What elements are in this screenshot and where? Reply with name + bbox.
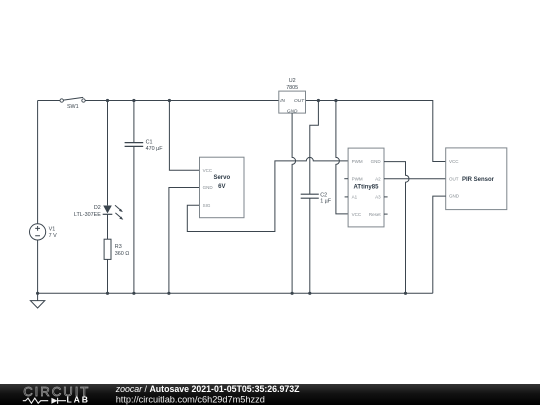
wire top rail middle segment bbox=[85, 100, 279, 102]
junction dot bottom rail at C2 branch bbox=[308, 292, 311, 295]
svg-text:PIR Sensor: PIR Sensor bbox=[462, 177, 495, 183]
wire top rail right segment to PIR VCC bbox=[306, 101, 446, 162]
stub pin Reset right bbox=[384, 213, 388, 215]
svg-text:6V: 6V bbox=[218, 184, 225, 190]
PIR sensor module bbox=[446, 148, 507, 210]
junction dot top rail at D2 branch bbox=[106, 99, 109, 102]
svg-text:D2: D2 bbox=[94, 205, 101, 211]
svg-text:zoocar / Autosave 2021-01-05T0: zoocar / Autosave 2021-01-05T05:35:26.97… bbox=[115, 384, 300, 394]
svg-text:7805: 7805 bbox=[286, 85, 298, 91]
svg-text:SIG: SIG bbox=[203, 203, 211, 208]
svg-text:C1: C1 bbox=[146, 140, 153, 146]
junction dot top rail at ATtiny VCC branch bbox=[334, 99, 337, 102]
wire ATtiny GND to bottom rail (hops right over A2 wire) bbox=[384, 162, 409, 294]
junction dot top rail at servo VCC branch bbox=[168, 99, 171, 102]
resistor R3 bbox=[104, 239, 129, 259]
svg-text:OUT: OUT bbox=[449, 177, 459, 182]
svg-text:SW1: SW1 bbox=[67, 104, 79, 110]
wire servo GND to bottom rail bbox=[169, 188, 200, 294]
svg-text:470 µF: 470 µF bbox=[146, 146, 164, 152]
wire PIR GND to bottom rail bbox=[433, 196, 446, 293]
wire D2 branch upper bbox=[107, 101, 109, 206]
svg-text:A1: A1 bbox=[352, 195, 358, 200]
junction dot top rail at C2 branch bbox=[317, 99, 320, 102]
svg-text:GND: GND bbox=[449, 194, 460, 199]
wire servo VCC branch bbox=[169, 101, 199, 171]
svg-text:GND: GND bbox=[203, 185, 214, 190]
junction dot bottom rail at C1 branch bbox=[132, 292, 135, 295]
voltage source V1 bbox=[29, 224, 57, 240]
wire C2 branch from OUT rail bbox=[310, 101, 319, 195]
wire left branch lower (V1 to bottom rail) bbox=[37, 240, 39, 293]
svg-text:VCC: VCC bbox=[352, 212, 362, 217]
svg-text:C2: C2 bbox=[320, 192, 327, 198]
servo module M1 bbox=[200, 157, 245, 218]
wire servo SIG to ATtiny PWM (with hop over C2 line) bbox=[187, 157, 348, 231]
svg-text:PWM: PWM bbox=[352, 159, 363, 164]
svg-text:IN: IN bbox=[280, 98, 285, 104]
svg-text:LTL-307EE: LTL-307EE bbox=[74, 212, 101, 218]
regulator U2 7805 bbox=[279, 78, 306, 114]
svg-text:http://circuitlab.com/c6h29d7m: http://circuitlab.com/c6h29d7m5hzzd bbox=[116, 394, 265, 404]
capacitor C2 bbox=[301, 192, 332, 204]
wire C1 to bottom rail bbox=[133, 147, 135, 294]
svg-text:1 µF: 1 µF bbox=[320, 199, 332, 205]
LED D2 bbox=[74, 205, 123, 220]
svg-text:GND: GND bbox=[371, 159, 382, 164]
capacitor C1 bbox=[125, 140, 164, 152]
CircuitLab logo bbox=[23, 384, 91, 405]
wire U2 GND to bottom rail (hops right over SIG wire) bbox=[292, 113, 296, 293]
junction dot bottom rail at ATtiny GND branch bbox=[404, 292, 407, 295]
IC U1 ATtiny85 bbox=[348, 148, 384, 227]
svg-text:360 Ω: 360 Ω bbox=[115, 251, 130, 257]
wire C2 to bottom rail bbox=[309, 198, 311, 293]
svg-text:V1: V1 bbox=[49, 227, 56, 233]
ground bbox=[30, 293, 44, 308]
stub pin A1 left bbox=[345, 196, 349, 198]
svg-text:VCC: VCC bbox=[449, 159, 459, 164]
switch SW1 bbox=[60, 97, 85, 110]
stub pin A3 right bbox=[384, 196, 388, 198]
wire ATtiny VCC branch (hops right over SIG wire) bbox=[336, 101, 348, 214]
svg-text:VCC: VCC bbox=[203, 168, 213, 173]
junction dot top rail at C1 branch bbox=[132, 99, 135, 102]
wire D2 to R3 bbox=[107, 214, 109, 239]
svg-text:U2: U2 bbox=[289, 78, 296, 84]
junction dot bottom rail at ground bbox=[36, 292, 39, 295]
svg-text:Reset: Reset bbox=[369, 212, 382, 217]
svg-text:Servo: Servo bbox=[213, 175, 230, 181]
wire R3 to bottom rail bbox=[107, 259, 109, 293]
wire bottom rail bbox=[38, 292, 433, 294]
wire left branch upper (top rail to V1) bbox=[37, 101, 39, 224]
wire top rail left segment bbox=[38, 100, 60, 102]
svg-text:7 V: 7 V bbox=[49, 233, 57, 239]
svg-text:R3: R3 bbox=[115, 244, 122, 250]
stub pin PWM2 left bbox=[344, 178, 348, 180]
svg-text:ATtiny85: ATtiny85 bbox=[354, 184, 380, 190]
svg-text:LAB: LAB bbox=[67, 395, 90, 405]
svg-text:OUT: OUT bbox=[294, 98, 305, 104]
junction dot bottom rail at servo GND branch bbox=[167, 292, 170, 295]
junction dot bottom rail at R3 branch bbox=[106, 292, 109, 295]
svg-text:A3: A3 bbox=[375, 195, 381, 200]
wire ATtiny A2 to PIR OUT bbox=[384, 178, 446, 180]
svg-text:A2: A2 bbox=[375, 176, 381, 181]
footer bar bbox=[0, 384, 540, 405]
wire C1 branch upper bbox=[133, 101, 135, 143]
junction dot bottom rail at U2 GND branch bbox=[291, 292, 294, 295]
svg-text:PWM: PWM bbox=[352, 176, 363, 181]
